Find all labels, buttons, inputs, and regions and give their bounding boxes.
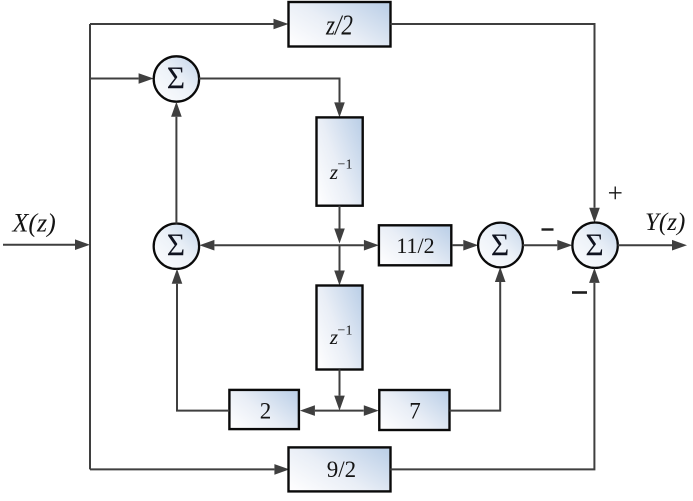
wire: node N1 down to delay Z2 [339,245,341,270]
summing junction S3 [478,223,523,268]
wire: node N1 to sum S2 (left arrow) [214,244,339,246]
wire: Z1 down to node N1 [339,206,341,229]
svg-text:Σ: Σ [585,228,603,263]
svg-text:z/2: z/2 [325,11,353,42]
svg-text:−1: −1 [338,324,353,339]
delay block Z1 (z^-1) [317,117,363,205]
wire: S3 to S4 [523,244,558,246]
svg-text:9/2: 9/2 [327,457,356,482]
svg-text:Y(z): Y(z) [645,209,685,236]
svg-text:−1: −1 [338,158,353,173]
gain block 7 [379,390,449,430]
gain block 9/2 [289,447,391,491]
wire: node N2 to gain 7 [340,410,364,412]
wire: S2 up to S1 [175,117,177,224]
svg-text:Σ: Σ [491,228,509,263]
wire: S4 output Y(z) [618,244,672,246]
wire: Z2 down to node N2 [339,369,341,395]
svg-text:2: 2 [260,398,272,423]
wire: trunk to z/2 block [90,23,274,25]
svg-text:11/2: 11/2 [396,233,434,258]
svg-text:Σ: Σ [167,60,185,95]
label minus sign (bottom input of S4) [572,291,587,294]
svg-text:7: 7 [409,399,421,424]
delay block Z2 (z^-1) [317,286,363,370]
block z/2 [289,2,391,47]
wire: gain 7 to S3 (up) [450,282,501,411]
svg-text:X(z): X(z) [12,209,56,238]
summing junction S1 [154,56,199,101]
svg-text:Σ: Σ [167,227,185,262]
label minus sign (S3 to S4) [542,228,554,230]
svg-text:+: + [608,178,623,208]
wire: 9/2 to S4 bottom (minus input) [390,283,594,470]
gain block 11/2 [379,225,451,265]
wire: gain 2 to S2 (up) [177,284,229,411]
wire: trunk to sum S1 [90,78,139,80]
summing junction S4 [572,223,617,268]
wire: node N2 to gain 2 [315,410,340,412]
summing junction S2 [154,224,199,269]
gain block 2 [229,390,299,429]
wire: S1 to delay Z1 [199,79,340,103]
wire: X(z) input [3,244,75,246]
wire: node N1 to gain 11/2 [340,244,364,246]
wire: input trunk vertical [89,24,91,469]
wire: 11/2 to S3 [452,244,463,246]
wire: trunk bottom to 9/2 [90,468,274,470]
wire: z/2 to top sum (plus input) [391,24,595,208]
